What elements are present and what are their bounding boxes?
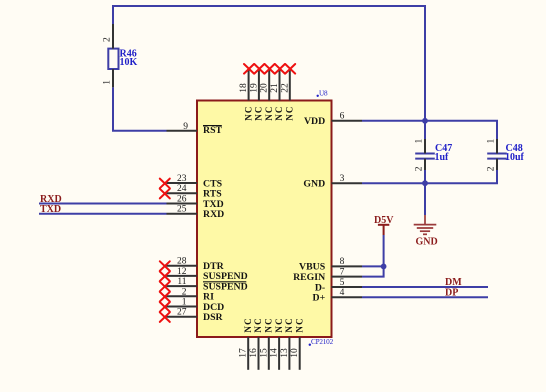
svg-text:4: 4	[340, 288, 345, 298]
svg-text:D5V: D5V	[374, 215, 394, 226]
svg-text:1: 1	[182, 298, 187, 308]
svg-text:1: 1	[487, 139, 497, 144]
svg-text:NC: NC	[253, 317, 263, 332]
svg-text:NC: NC	[243, 317, 253, 332]
svg-text:CP2102: CP2102	[311, 338, 334, 346]
svg-text:10: 10	[290, 348, 300, 358]
svg-text:2: 2	[103, 37, 113, 42]
svg-text:NC: NC	[294, 317, 304, 332]
svg-text:REGIN: REGIN	[293, 272, 325, 283]
svg-text:16: 16	[249, 348, 259, 358]
svg-text:RXD: RXD	[203, 209, 224, 220]
svg-text:6: 6	[340, 112, 345, 122]
svg-text:12: 12	[177, 267, 187, 277]
svg-text:U8: U8	[319, 89, 328, 97]
svg-text:7: 7	[340, 267, 345, 277]
svg-text:NC: NC	[274, 317, 284, 332]
svg-text:19: 19	[249, 83, 259, 93]
svg-text:25: 25	[177, 205, 187, 215]
svg-text:11: 11	[177, 277, 186, 287]
svg-text:18: 18	[239, 83, 249, 93]
svg-text:24: 24	[177, 184, 187, 194]
svg-text:27: 27	[177, 308, 187, 318]
svg-text:22: 22	[280, 83, 290, 93]
svg-text:GND: GND	[303, 179, 325, 190]
svg-text:10K: 10K	[120, 57, 138, 68]
svg-text:TXD: TXD	[40, 204, 61, 215]
svg-text:2: 2	[487, 166, 497, 171]
svg-text:GND: GND	[416, 237, 438, 248]
svg-text:2: 2	[182, 287, 187, 297]
svg-text:NC: NC	[284, 317, 294, 332]
svg-text:14: 14	[270, 348, 280, 358]
svg-text:NC: NC	[243, 105, 253, 120]
svg-text:VDD: VDD	[304, 116, 325, 127]
svg-text:1: 1	[415, 139, 425, 144]
svg-text:NC: NC	[264, 105, 274, 120]
svg-text:5: 5	[340, 278, 345, 288]
svg-text:10uf: 10uf	[505, 152, 525, 163]
svg-text:26: 26	[177, 195, 187, 205]
svg-text:9: 9	[183, 122, 188, 132]
svg-text:3: 3	[340, 174, 345, 184]
svg-text:8: 8	[340, 257, 345, 267]
svg-text:NC: NC	[254, 105, 264, 120]
svg-text:1: 1	[103, 80, 113, 85]
svg-text:17: 17	[239, 348, 249, 358]
svg-text:23: 23	[177, 174, 187, 184]
svg-text:NC: NC	[264, 317, 274, 332]
svg-text:2: 2	[415, 166, 425, 171]
svg-text:DP: DP	[445, 287, 458, 298]
svg-text:20: 20	[260, 83, 270, 93]
svg-text:15: 15	[259, 348, 269, 358]
svg-text:13: 13	[280, 348, 290, 358]
svg-text:D+: D+	[313, 293, 326, 304]
svg-text:NC: NC	[285, 105, 295, 120]
svg-text:DSR: DSR	[203, 312, 224, 323]
svg-text:NC: NC	[274, 105, 284, 120]
svg-text:1uf: 1uf	[435, 152, 450, 163]
svg-text:21: 21	[270, 83, 280, 93]
svg-text:28: 28	[177, 257, 187, 267]
svg-text:RST: RST	[203, 125, 223, 136]
